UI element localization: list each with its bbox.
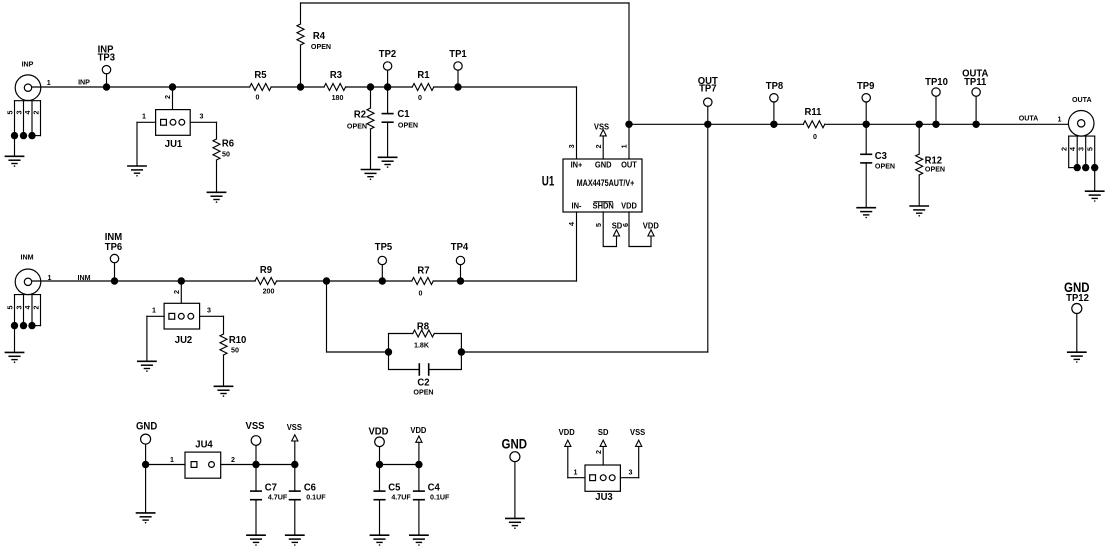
- svg-text:TP9: TP9: [857, 81, 875, 92]
- svg-text:VSS: VSS: [287, 423, 302, 432]
- svg-text:5: 5: [1085, 147, 1094, 151]
- svg-text:TP12: TP12: [1066, 293, 1089, 304]
- svg-text:3: 3: [207, 305, 211, 314]
- svg-text:R11: R11: [805, 107, 822, 118]
- svg-text:3: 3: [1076, 147, 1085, 151]
- svg-text:0: 0: [256, 92, 260, 101]
- svg-text:1: 1: [1058, 114, 1062, 123]
- svg-text:R1: R1: [417, 70, 430, 81]
- svg-text:2: 2: [231, 455, 235, 464]
- svg-text:U1: U1: [542, 173, 555, 189]
- svg-text:3: 3: [200, 111, 204, 120]
- svg-text:5: 5: [5, 306, 14, 310]
- svg-text:1: 1: [152, 305, 156, 314]
- svg-text:50: 50: [231, 345, 239, 354]
- svg-text:VDD: VDD: [621, 201, 637, 210]
- svg-text:GND: GND: [502, 435, 528, 451]
- svg-text:R6: R6: [222, 138, 235, 149]
- svg-text:TP3: TP3: [98, 52, 116, 63]
- svg-text:MAX4475AUT/V+: MAX4475AUT/V+: [577, 178, 635, 188]
- svg-text:180: 180: [332, 93, 344, 102]
- svg-text:2: 2: [594, 450, 603, 454]
- svg-text:R5: R5: [254, 70, 267, 81]
- svg-text:0: 0: [419, 288, 423, 297]
- svg-text:VSS: VSS: [630, 428, 645, 437]
- svg-text:TP1: TP1: [449, 49, 467, 60]
- svg-text:JU1: JU1: [165, 139, 183, 150]
- svg-text:TP11: TP11: [964, 77, 987, 88]
- svg-text:JU2: JU2: [175, 335, 193, 346]
- svg-text:IN+: IN+: [571, 160, 583, 169]
- svg-text:1: 1: [170, 455, 174, 464]
- svg-text:TP4: TP4: [451, 242, 469, 253]
- svg-text:3: 3: [629, 467, 633, 476]
- svg-text:GND: GND: [136, 421, 157, 433]
- svg-text:0.1UF: 0.1UF: [430, 492, 450, 501]
- svg-text:0.1UF: 0.1UF: [306, 492, 326, 501]
- svg-text:2: 2: [594, 144, 603, 148]
- svg-text:IN-: IN-: [572, 201, 582, 210]
- svg-text:R7: R7: [417, 265, 429, 276]
- svg-text:1: 1: [620, 144, 629, 148]
- svg-text:INP: INP: [22, 59, 34, 68]
- svg-text:2: 2: [172, 290, 181, 294]
- svg-text:TP10: TP10: [925, 77, 948, 88]
- svg-text:OUTA: OUTA: [1072, 95, 1092, 104]
- svg-text:4.7UF: 4.7UF: [391, 492, 411, 501]
- svg-text:R8: R8: [417, 321, 430, 332]
- svg-text:VSS: VSS: [245, 421, 264, 432]
- svg-text:OPEN: OPEN: [413, 387, 433, 396]
- svg-text:VDD: VDD: [643, 221, 659, 230]
- svg-text:2: 2: [31, 111, 40, 115]
- svg-text:VDD: VDD: [559, 428, 575, 437]
- svg-text:SD: SD: [612, 221, 623, 230]
- svg-text:50: 50: [222, 149, 230, 158]
- svg-text:OUT: OUT: [621, 160, 637, 169]
- svg-text:SHDN: SHDN: [593, 201, 614, 210]
- svg-text:R2: R2: [354, 109, 367, 120]
- svg-text:1: 1: [47, 78, 51, 87]
- svg-text:VDD: VDD: [368, 426, 388, 437]
- svg-text:5: 5: [594, 223, 603, 227]
- svg-text:2: 2: [31, 306, 40, 310]
- svg-text:R4: R4: [313, 31, 326, 42]
- svg-text:JU3: JU3: [595, 492, 613, 503]
- svg-text:C1: C1: [397, 109, 410, 120]
- svg-text:TP7: TP7: [699, 83, 716, 94]
- svg-text:GND: GND: [595, 160, 612, 169]
- svg-text:INP: INP: [78, 77, 90, 86]
- svg-text:OPEN: OPEN: [347, 121, 367, 130]
- svg-text:0: 0: [813, 132, 817, 141]
- svg-text:TP6: TP6: [105, 242, 123, 253]
- svg-text:VSS: VSS: [594, 122, 609, 131]
- svg-text:5: 5: [5, 111, 14, 115]
- svg-text:2: 2: [163, 95, 172, 99]
- svg-text:200: 200: [263, 286, 275, 295]
- svg-text:R3: R3: [330, 70, 343, 81]
- svg-text:OPEN: OPEN: [875, 161, 895, 170]
- svg-text:R9: R9: [260, 265, 273, 276]
- svg-text:TP5: TP5: [375, 242, 393, 253]
- svg-text:JU4: JU4: [195, 439, 213, 450]
- svg-text:OUTA: OUTA: [1019, 113, 1039, 122]
- svg-text:TP2: TP2: [379, 49, 397, 60]
- svg-text:SD: SD: [598, 428, 609, 437]
- svg-text:1: 1: [142, 111, 146, 120]
- svg-text:4.7UF: 4.7UF: [268, 492, 288, 501]
- svg-text:3: 3: [567, 144, 576, 148]
- svg-text:VDD: VDD: [410, 426, 426, 435]
- svg-text:0: 0: [418, 93, 422, 102]
- svg-text:1: 1: [574, 467, 578, 476]
- svg-text:OPEN: OPEN: [311, 42, 331, 51]
- svg-text:OPEN: OPEN: [925, 165, 945, 174]
- svg-text:INM: INM: [20, 252, 33, 261]
- svg-text:TP8: TP8: [766, 81, 784, 92]
- svg-text:OPEN: OPEN: [398, 121, 418, 130]
- svg-text:1.8K: 1.8K: [414, 340, 430, 349]
